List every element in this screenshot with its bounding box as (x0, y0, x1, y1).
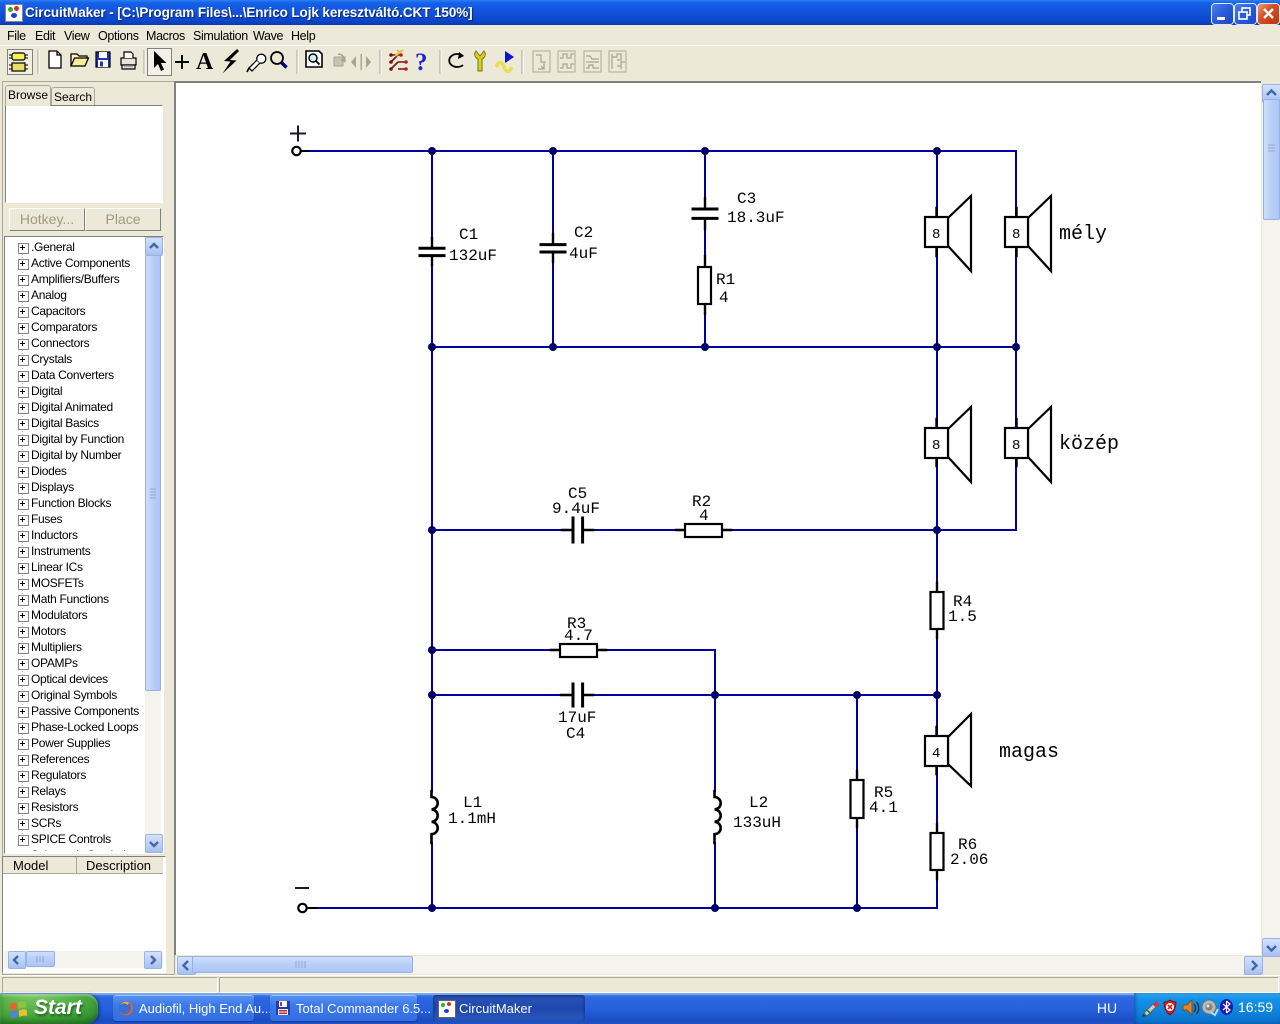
svg-text:132uF: 132uF (449, 247, 497, 265)
resistor R2 (676, 493, 731, 537)
svg-text:4: 4 (719, 289, 729, 307)
svg-text:R1: R1 (716, 271, 735, 289)
run tool (496, 51, 514, 72)
speaker közép 1 (925, 407, 971, 482)
title bar (0, 0, 1280, 25)
capacitor C2 (541, 224, 598, 263)
bluetooth icon (1220, 999, 1233, 1015)
schematic v-scrollbar (1262, 84, 1280, 955)
speaker magas (925, 714, 971, 786)
svg-text:4uF: 4uF (569, 245, 598, 263)
junction (553,347) (549, 343, 557, 351)
model/description panel (2, 856, 166, 973)
svg-text:magas: magas (999, 741, 1059, 764)
scope buttons (disabled) (533, 51, 626, 72)
junction (705,347) (701, 343, 709, 351)
device icon (1202, 1000, 1218, 1015)
window buttons (1211, 3, 1234, 25)
schematic h-scrollbar (176, 956, 1262, 974)
cursor button (pressed) (148, 49, 172, 76)
svg-text:2.06: 2.06 (950, 851, 988, 869)
junction (432,530) (428, 526, 436, 534)
node + terminal (291, 127, 312, 156)
digital mode icon (389, 50, 408, 71)
probe tool (247, 54, 266, 72)
svg-text:4: 4 (699, 507, 709, 525)
wire column C3/R1 (704, 151, 706, 347)
inductor L1 (432, 791, 497, 843)
junction (937,347) (933, 343, 941, 351)
menu bar (0, 25, 1280, 45)
svg-text:8: 8 (932, 227, 940, 243)
svg-text:4.7: 4.7 (564, 627, 593, 645)
capacitor C1 (420, 226, 497, 265)
speaker icon (1183, 1000, 1199, 1015)
inductor L2 (715, 791, 782, 843)
plus tool (175, 55, 189, 69)
schematic canvas (176, 83, 1261, 955)
junction (857,695) (853, 691, 861, 699)
junction (553,151) (549, 147, 557, 155)
junction (857,908) (853, 904, 861, 912)
svg-text:1.1mH: 1.1mH (448, 810, 496, 828)
tree scrollbar (145, 237, 161, 851)
junction (432,695) (428, 691, 436, 699)
save (96, 52, 110, 67)
svg-text:A: A (196, 49, 214, 75)
find part icon (306, 51, 322, 67)
capacitor C5 (552, 485, 600, 542)
print (121, 52, 136, 69)
parts browser button (pressed) (8, 50, 33, 75)
toolbar (0, 45, 1280, 80)
svg-text:C2: C2 (574, 224, 593, 242)
wire bus 2 (432, 346, 1016, 348)
svg-text:8: 8 (1012, 227, 1020, 243)
start button (0, 994, 98, 1024)
junction (937,151) (933, 147, 941, 155)
junction (715,908) (711, 904, 719, 912)
mirror (disabled) (351, 54, 371, 70)
junction (432,151) (428, 147, 436, 155)
rotate (disabled) (334, 54, 345, 66)
wire R3 branch (432, 650, 715, 695)
junction (705,151) (701, 147, 709, 155)
capacitor C3 (693, 190, 785, 229)
wire bottom bus (307, 907, 937, 909)
speaker mély 1 (925, 196, 971, 271)
junction (715,695) (711, 691, 719, 699)
resistor R4 (931, 583, 977, 638)
wire column C1/L1 (431, 151, 433, 908)
junction (937,530) (933, 526, 941, 534)
pen icon (1142, 1001, 1159, 1017)
tabs (5, 85, 51, 106)
wire mid bus (C5/R2) (432, 529, 1016, 531)
junction (1016,347) (1012, 343, 1020, 351)
resistor R1 (698, 256, 735, 314)
preview box (5, 105, 163, 203)
taskbar (0, 993, 1280, 1024)
svg-text:8: 8 (932, 438, 940, 454)
svg-text:1.5: 1.5 (948, 608, 977, 626)
shield icon (1164, 1000, 1176, 1015)
capacitor C4 (558, 684, 596, 743)
app icon (5, 4, 23, 22)
speaker közép 2 (1005, 407, 1051, 482)
task buttons (113, 995, 254, 1021)
zoom tool (271, 52, 287, 68)
wrench (yellow) (475, 51, 486, 71)
junction (432,650) (428, 646, 436, 654)
tree box (4, 236, 164, 854)
wire column L2 (714, 695, 716, 908)
junction (432,908) (428, 904, 436, 912)
svg-text:L2: L2 (749, 794, 768, 812)
reset (449, 52, 464, 67)
wire column C2 (552, 151, 554, 347)
delete tool (bolt) (223, 49, 240, 74)
left panel (0, 79, 176, 975)
language band (1092, 995, 1122, 1023)
node - terminal (296, 888, 316, 912)
svg-text:közép: közép (1059, 433, 1119, 456)
resistor R3 (551, 615, 606, 657)
status bar (0, 975, 1280, 994)
wire column speakers right (1015, 151, 1017, 530)
hotkey/place buttons (9, 208, 85, 231)
system tray (1134, 993, 1280, 1024)
svg-text:8: 8 (1012, 438, 1020, 454)
speaker mély 2 (1005, 196, 1051, 271)
svg-text:?: ? (415, 49, 428, 76)
svg-text:mély: mély (1059, 223, 1107, 246)
new (49, 51, 61, 68)
wire top bus (310, 150, 1016, 152)
svg-text:4: 4 (932, 746, 940, 762)
svg-text:C4: C4 (566, 725, 585, 743)
svg-text:4.1: 4.1 (869, 799, 898, 817)
resistor R5 (851, 771, 898, 827)
svg-text:18.3uF: 18.3uF (727, 209, 785, 227)
svg-text:9.4uF: 9.4uF (552, 500, 600, 518)
open (71, 54, 89, 66)
wire column R5 (856, 695, 858, 908)
model h-scrollbar (4, 951, 163, 968)
junction (432,347) (428, 343, 436, 351)
resistor R6 (931, 824, 989, 879)
wire column speakers left (936, 151, 938, 908)
clock (1238, 999, 1280, 1015)
junction (937,695) (933, 691, 941, 699)
wire C4 bus (432, 694, 937, 696)
svg-text:133uH: 133uH (733, 814, 781, 832)
svg-text:C3: C3 (737, 190, 756, 208)
svg-text:C1: C1 (459, 226, 478, 244)
